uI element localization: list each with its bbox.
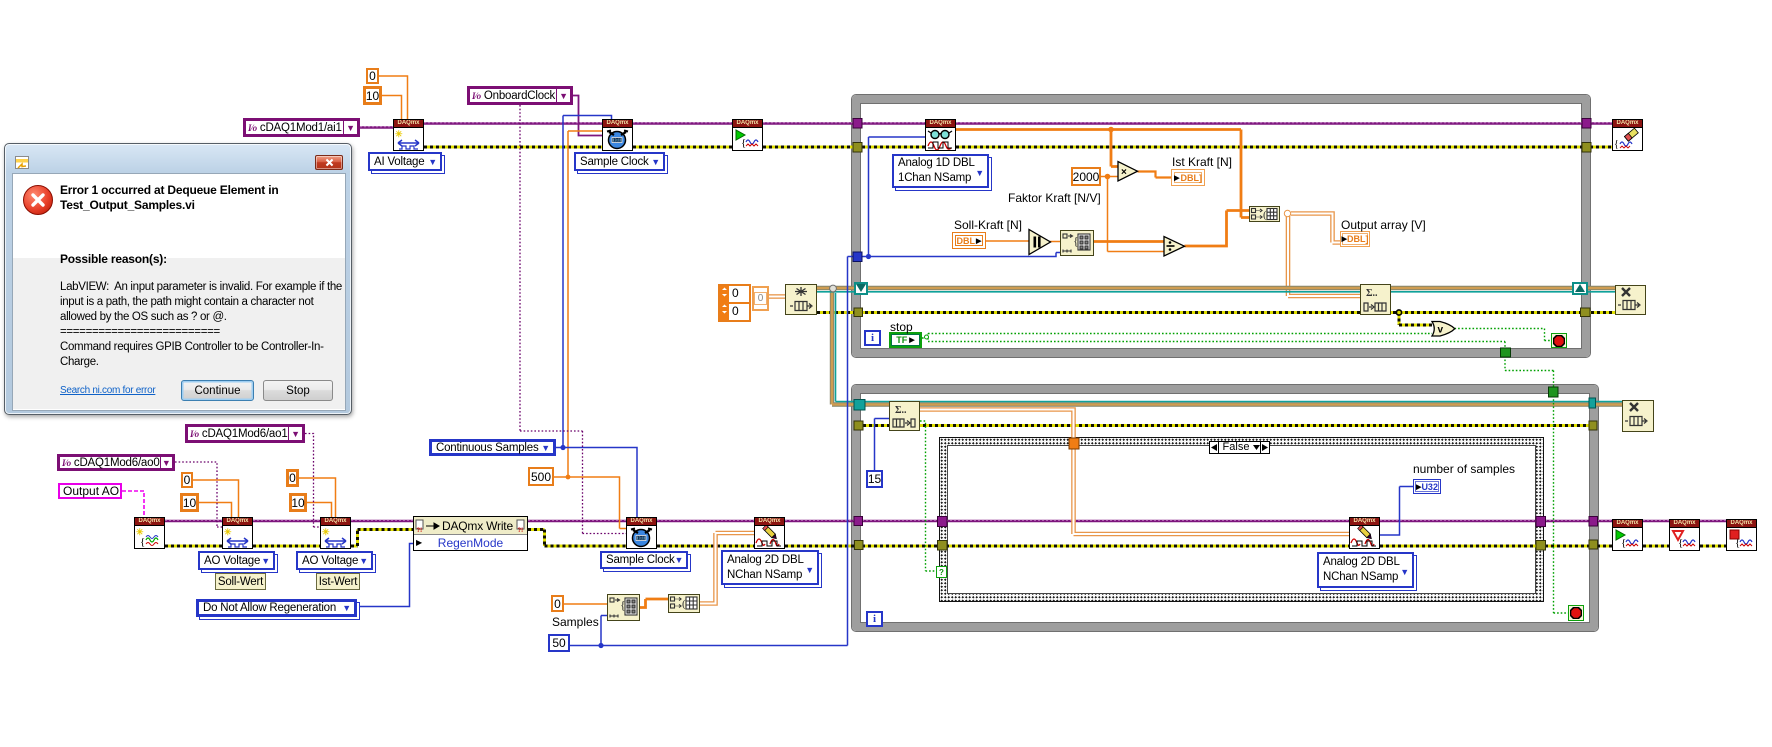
svg-text:{: {	[1614, 139, 1619, 150]
svg-text:(: (	[1263, 209, 1267, 221]
svg-text:Σ..: Σ..	[1366, 288, 1378, 299]
svg-text:×: ×	[1121, 167, 1127, 178]
svg-text:v: v	[1438, 325, 1444, 336]
svg-text:{: {	[1621, 537, 1626, 549]
svg-text:13:11: 13:11	[613, 138, 622, 143]
svg-text:{: {	[140, 536, 145, 548]
svg-text:{: {	[1735, 537, 1740, 549]
svg-text:?!: ?!	[517, 528, 523, 533]
svg-text:(: (	[682, 598, 686, 610]
svg-text:13:11: 13:11	[637, 536, 646, 541]
svg-text:{: {	[741, 137, 746, 149]
svg-text:{: {	[1678, 537, 1683, 549]
svg-text:✳: ✳	[224, 527, 232, 537]
svg-text:✳: ✳	[322, 527, 330, 537]
svg-text:Σ..: Σ..	[895, 405, 907, 416]
svg-text:✳: ✳	[395, 129, 403, 139]
svg-text:?!: ?!	[417, 528, 423, 533]
